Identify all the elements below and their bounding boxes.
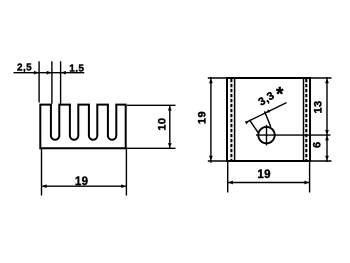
arrow up 13	[325, 78, 329, 83]
dimension line 19 (left view bottom)	[42, 185, 127, 187]
right strip dashed hatch	[305, 79, 307, 160]
arrow at x=60.6 pointing left	[61, 71, 66, 75]
ext top-left for dim 19 (right view left)	[208, 77, 227, 79]
svg-text:6: 6	[311, 141, 323, 148]
hole circle	[258, 127, 274, 143]
arrow left bottom19 right view	[228, 181, 233, 185]
svg-text:2,5: 2,5	[17, 63, 32, 74]
arrow at x=39.1 pointing right	[34, 71, 39, 75]
svg-text:*: *	[276, 84, 284, 105]
extension line (right, x=60.6)	[60, 61, 62, 103]
svg-text:19: 19	[197, 111, 209, 124]
ext top-right for dim 13	[311, 77, 332, 79]
arrow right of bottom 19	[121, 184, 126, 188]
arrow at x=51.9 pointing right	[47, 71, 52, 75]
ext bottom-left for dim 19 (right view bottom)	[227, 162, 229, 193]
arrow down 13	[325, 130, 329, 135]
ext bottom-right for dim 19 (right view bottom)	[309, 162, 311, 193]
dimension line 19 (right view bottom)	[228, 182, 310, 184]
right view body rectangle	[227, 78, 310, 161]
arrow at lower-left crossing pointing up-right	[245, 121, 250, 125]
hole center cross horizontal (also ext for 13/6)	[256, 134, 331, 136]
ext bottom-left for dim 19 (right view left)	[208, 160, 227, 162]
ext line 2 tangent upper-right	[265, 111, 271, 127]
arrow down 6	[325, 156, 329, 161]
dimension line 13/6 (vertical)	[326, 77, 328, 162]
extension line bottom-right for dim 19 (left view)	[125, 149, 127, 196]
arrow left of bottom 19	[42, 184, 47, 188]
arrow up left19	[209, 78, 213, 83]
heatsink profile (left view outline with fins)	[40, 105, 125, 149]
arrow at upper-right crossing pointing down-left	[265, 109, 270, 113]
right fin strip inner line	[303, 79, 305, 160]
arrow down left19	[209, 156, 213, 161]
extension line (left, x=39.1)	[38, 61, 40, 102]
ext line 1 tangent lower-left	[249, 120, 258, 133]
arrow right bottom19 right view	[304, 181, 309, 185]
extension line top for dim 10	[127, 104, 176, 106]
svg-text:19: 19	[257, 169, 271, 181]
svg-text:1,5: 1,5	[69, 64, 84, 75]
hole dia dimension line (oblique)	[247, 103, 287, 122]
extension line bottom for dim 10 (base bottom extended)	[126, 147, 176, 149]
arrow up 6	[325, 135, 329, 140]
svg-text:10: 10	[157, 118, 169, 131]
svg-text:13: 13	[313, 100, 325, 113]
dimension line 19 (right view left, vertical)	[210, 77, 212, 163]
hole center cross vertical	[266, 125, 268, 146]
arrow up at top of dim 10	[168, 105, 172, 110]
left strip dashed hatch	[230, 79, 232, 160]
arrow down at bottom of dim 10	[168, 143, 172, 148]
dimension line for 2,5 / 1,5	[14, 72, 85, 74]
left fin strip inner line	[234, 79, 236, 160]
dimension line 10 (vertical)	[169, 105, 171, 148]
extension line (mid, x=51.9)	[51, 61, 53, 103]
extension line bottom-left for dim 19 (left view)	[41, 149, 43, 196]
ext bottom-right for dim 6	[311, 160, 332, 162]
svg-text:19: 19	[75, 176, 89, 188]
